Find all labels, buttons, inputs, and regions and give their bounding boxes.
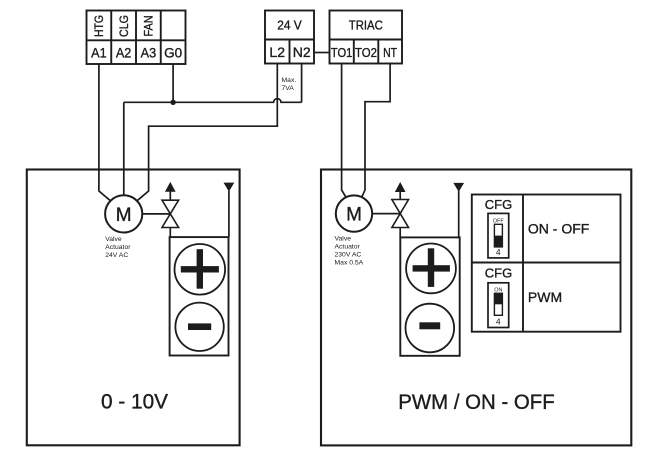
minus sign right (419, 322, 440, 329)
heat exchanger box left (170, 237, 229, 355)
svg-text:TO1: TO1 (331, 45, 353, 60)
wire N2 vertical (301, 64, 303, 103)
enclosure box right (PWM / ON - OFF) (321, 170, 631, 446)
cooling circle (-) left (175, 303, 223, 351)
TRIAC block outline (330, 11, 403, 64)
svg-text:FAN: FAN (142, 16, 156, 37)
svg-text:Max.: Max. (282, 77, 297, 84)
wire valve V1 to heat exchanger box (169, 228, 171, 238)
wire TO1 down to actuator M2 (342, 64, 348, 200)
valve actuator M1 (105, 195, 142, 232)
DIP switch S1 (OFF position) (488, 213, 509, 258)
svg-text:PWM: PWM (528, 289, 562, 305)
svg-text:A3: A3 (141, 44, 157, 60)
valve actuator M2 (336, 195, 372, 231)
wire valve V2 to heat exchanger box (399, 228, 401, 238)
terminal block TB1 outline (A1 A2 A3 G0) (87, 11, 186, 65)
svg-text:4: 4 (496, 247, 501, 257)
svg-text:Actuator: Actuator (335, 244, 361, 251)
svg-text:OFF: OFF (493, 218, 504, 224)
DIP switch S2 (ON position) (488, 283, 509, 328)
svg-text:NT: NT (383, 45, 397, 60)
svg-text:24 V: 24 V (277, 18, 302, 33)
return drop symbol right (454, 183, 463, 237)
label Max. 7VA (282, 77, 297, 92)
minus sign left (188, 323, 211, 330)
CFG configuration box outline (472, 195, 621, 332)
wire actuator M2 to valve V2 (354, 213, 400, 215)
valve V2 (two-way valve body) (392, 200, 409, 228)
flow arrow above valve V1 (166, 183, 175, 200)
svg-text:CFG: CFG (485, 197, 512, 212)
flow arrow above valve V2 (396, 183, 405, 199)
svg-text:ON - OFF: ON - OFF (528, 220, 589, 236)
svg-text:Max 0.5A: Max 0.5A (335, 260, 364, 267)
svg-text:N2: N2 (293, 44, 311, 60)
wire horizontal N2/G0 bus with hop over L2 (124, 99, 302, 103)
wire N2 to TO1 link (314, 52, 330, 54)
svg-text:7VA: 7VA (282, 85, 295, 92)
return drop symbol left (224, 183, 233, 237)
wire A1 down to actuator M1 (99, 64, 111, 201)
svg-text:M: M (116, 205, 132, 226)
wire NT horizontal (365, 101, 391, 103)
svg-text:CFG: CFG (485, 265, 512, 280)
heating circle (+) left (175, 244, 226, 295)
wire G0 down to node (172, 64, 174, 102)
label Valve Actuator 24V AC (105, 236, 131, 259)
svg-text:L2: L2 (269, 44, 285, 60)
cooling circle (-) right (406, 304, 455, 353)
svg-text:A1: A1 (91, 44, 107, 60)
plus sign right (413, 248, 450, 287)
svg-text:HTG: HTG (92, 15, 106, 37)
svg-text:CLG: CLG (117, 15, 131, 37)
svg-text:0 - 10V: 0 - 10V (101, 390, 168, 413)
wire actuator M1 to valve V1 (124, 213, 171, 215)
svg-text:G0: G0 (164, 44, 182, 60)
wire L2 down to actuator M1 (137, 125, 149, 200)
svg-text:Actuator: Actuator (105, 244, 131, 251)
valve V1 (two-way valve body) (162, 200, 179, 227)
svg-text:ON: ON (494, 287, 502, 293)
label Valve Actuator 230V AC Max 0.5A (335, 235, 364, 266)
svg-text:M: M (346, 205, 362, 226)
plus sign left (181, 249, 219, 289)
svg-text:TRIAC: TRIAC (349, 18, 383, 33)
heating circle (+) right (406, 244, 456, 294)
heat exchanger box right (400, 237, 459, 355)
svg-text:24V AC: 24V AC (105, 252, 128, 259)
enclosure box left (0 - 10V) (27, 170, 240, 446)
wire NT vertical (389, 64, 391, 102)
svg-text:Valve: Valve (105, 236, 122, 243)
wire L2 horizontal (149, 125, 279, 127)
node junction G0 bus (170, 100, 175, 105)
wire bus down to actuator M1 (123, 102, 125, 196)
power block 24V outline (265, 11, 314, 64)
svg-text:Valve: Valve (335, 235, 352, 242)
wire NT down to actuator M2 (361, 101, 366, 200)
svg-text:4: 4 (496, 316, 501, 326)
svg-text:TO2: TO2 (355, 45, 377, 60)
svg-text:A2: A2 (116, 44, 132, 60)
wire L2 vertical (276, 64, 278, 127)
svg-text:230V AC: 230V AC (335, 252, 362, 259)
svg-text:PWM / ON - OFF: PWM / ON - OFF (398, 391, 555, 414)
